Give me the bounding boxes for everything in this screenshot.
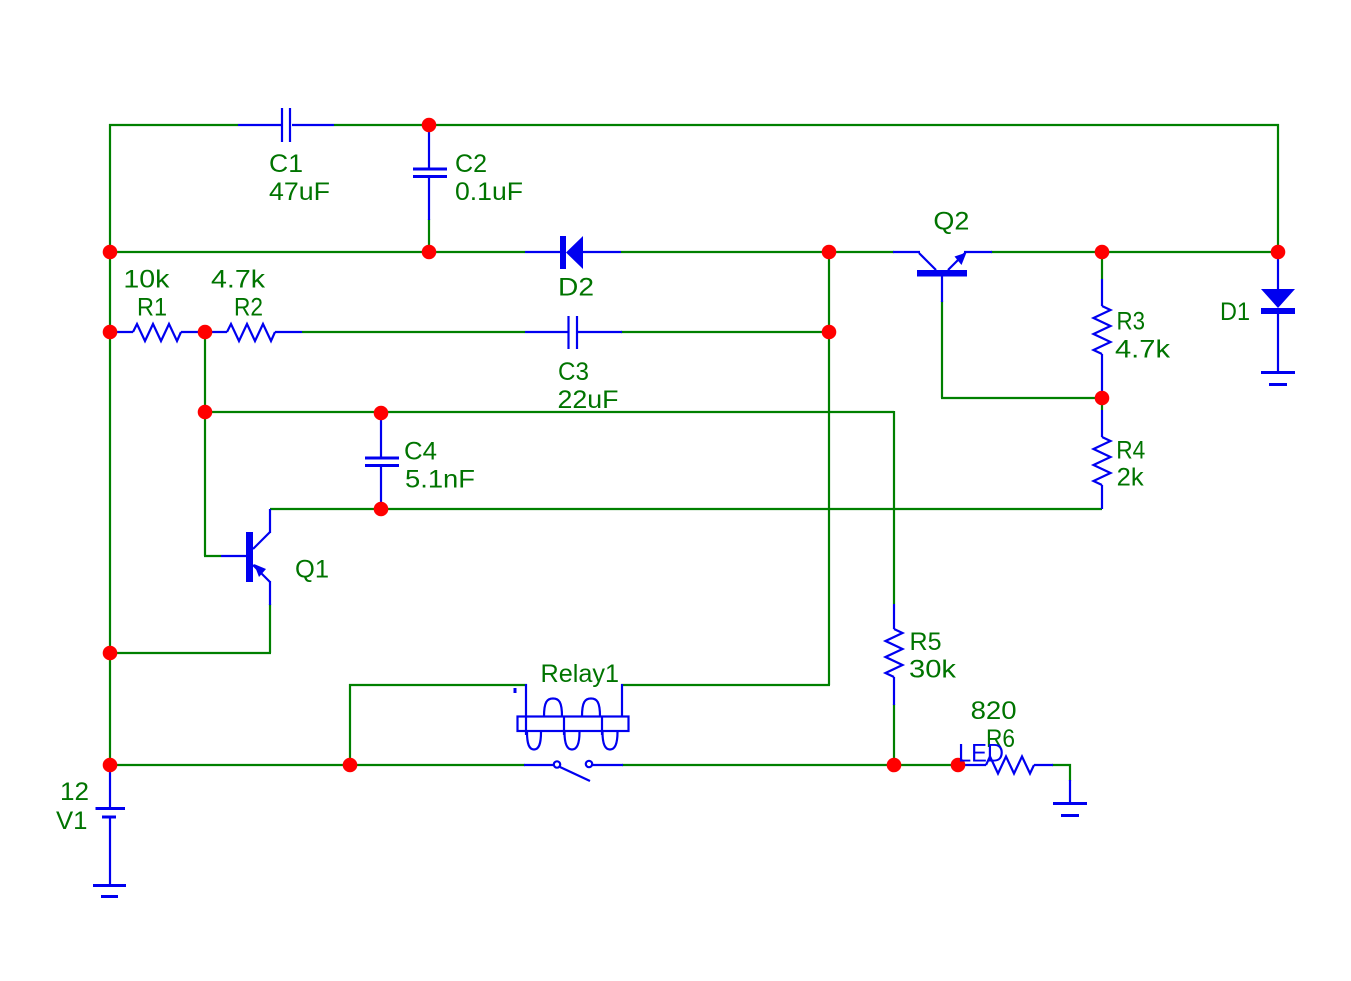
relay Relay1 coil and core xyxy=(514,684,629,750)
node dot C2 bottom xyxy=(422,245,437,260)
svg-text:4.7k: 4.7k xyxy=(1115,336,1171,364)
svg-text:820: 820 xyxy=(971,697,1017,725)
transistor Q2 xyxy=(893,252,992,302)
svg-text:R2: R2 xyxy=(234,294,263,322)
svg-text:Q2: Q2 xyxy=(933,208,969,236)
ground for D1 xyxy=(1261,373,1295,385)
resistor R1 xyxy=(110,324,205,341)
wire C3 to node xyxy=(621,331,829,333)
svg-text:10k: 10k xyxy=(123,266,170,294)
svg-text:R3: R3 xyxy=(1117,307,1146,335)
node dot R1-R2 xyxy=(198,325,213,340)
svg-text:22uF: 22uF xyxy=(558,386,619,414)
resistor R2 xyxy=(205,324,302,341)
wire x350 drop xyxy=(349,684,351,765)
wire rail2 segment b xyxy=(621,251,894,253)
svg-text:R5: R5 xyxy=(910,628,942,656)
capacitor C2 xyxy=(413,127,447,220)
wire R4 top stub xyxy=(1101,398,1103,410)
svg-text:Relay1: Relay1 xyxy=(541,660,620,688)
node dot C3 right xyxy=(822,325,837,340)
svg-text:R4: R4 xyxy=(1116,437,1145,465)
wire Q2 base down xyxy=(941,301,943,398)
svg-text:4.7k: 4.7k xyxy=(211,266,266,294)
node dot battery top xyxy=(103,758,118,773)
wire x894 drop upper xyxy=(893,411,895,604)
wire y412 row xyxy=(205,411,894,413)
wire R2 to C3 xyxy=(302,331,525,333)
node dot R5 bottom xyxy=(887,758,902,773)
wire bottom rail a xyxy=(109,764,525,766)
wire relay top left xyxy=(349,684,527,686)
wire vertical x205 xyxy=(204,332,206,556)
node dot D2 cathode net xyxy=(822,245,837,260)
node dot R6 left xyxy=(951,758,966,773)
wire R6 to ground corner xyxy=(1052,765,1070,781)
node dot left rail rail2 xyxy=(103,245,118,260)
svg-text:D2: D2 xyxy=(558,274,594,302)
wire Q1 emitter down xyxy=(269,604,271,653)
node dot relay left pin xyxy=(343,758,358,773)
wire left rail xyxy=(109,124,111,765)
capacitor C3 xyxy=(525,316,622,349)
svg-text:12: 12 xyxy=(60,778,89,806)
svg-text:R1: R1 xyxy=(137,294,167,322)
svg-text:C2: C2 xyxy=(455,150,487,178)
wire right drop to D1 node xyxy=(1277,124,1279,252)
svg-text:47uF: 47uF xyxy=(269,178,330,206)
node dot left rail R1 xyxy=(103,325,118,340)
wire y509 row xyxy=(270,508,1102,510)
wire rail2 segment a xyxy=(109,251,525,253)
resistor R6 xyxy=(958,757,1053,774)
node dot emitter rail xyxy=(103,646,118,661)
node dot D1 anode xyxy=(1271,245,1286,260)
transistor Q1 xyxy=(221,509,270,605)
wire top rail left segment xyxy=(109,124,238,126)
svg-text:C1: C1 xyxy=(269,150,303,178)
wire C2 bottom stub xyxy=(428,219,430,252)
wire top rail right segment xyxy=(334,124,1279,126)
svg-text:Q1: Q1 xyxy=(295,556,329,584)
resistor R4 xyxy=(1094,410,1111,509)
capacitor C1 xyxy=(238,108,334,142)
node dot R3-R4 junction xyxy=(1095,391,1110,406)
diode D1 xyxy=(1261,252,1295,371)
wire Q1 base stub xyxy=(204,555,221,557)
wire rail2 segment c xyxy=(991,251,1279,253)
svg-text:0.1uF: 0.1uF xyxy=(455,178,523,206)
wire R3 top lead xyxy=(1101,252,1103,279)
diode D2 xyxy=(525,236,621,269)
wire x894 drop lower xyxy=(893,704,895,765)
capacitor C4 xyxy=(365,415,399,508)
ground for R6 xyxy=(1053,780,1087,816)
svg-text:C4: C4 xyxy=(404,438,437,466)
node dot C4 top xyxy=(374,406,389,421)
wire Q2 base to R3R4 node xyxy=(941,397,1102,399)
wire Q1 emitter to rail xyxy=(109,652,271,654)
ground for V1 xyxy=(93,886,126,897)
svg-text:LED: LED xyxy=(958,740,1004,768)
wire x829 vertical xyxy=(828,252,830,685)
svg-text:C3: C3 xyxy=(558,358,589,386)
svg-text:D1: D1 xyxy=(1220,298,1250,326)
svg-text:V1: V1 xyxy=(56,807,88,835)
node dot C1-C2 top xyxy=(422,118,437,133)
battery V1 xyxy=(96,765,126,884)
resistor R5 xyxy=(886,604,903,705)
resistor R3 xyxy=(1094,279,1111,398)
node dot x205 y412 xyxy=(198,405,213,420)
svg-text:5.1nF: 5.1nF xyxy=(405,466,475,494)
svg-text:2k: 2k xyxy=(1117,464,1145,492)
node dot R3 top xyxy=(1095,245,1110,260)
wire bottom rail b xyxy=(622,764,965,766)
node dot C4 bottom xyxy=(374,502,389,517)
wire relay top right xyxy=(621,684,830,686)
relay switch contact xyxy=(524,761,623,781)
svg-text:30k: 30k xyxy=(909,656,957,684)
